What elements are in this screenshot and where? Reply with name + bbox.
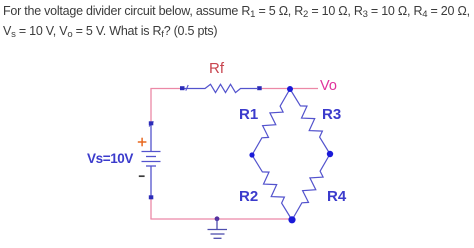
wire: left vertical (top section, Vs top pin to top-left corner) xyxy=(150,89,152,123)
ground junction dot xyxy=(215,216,220,221)
svg-text:Vs=10V: Vs=10V xyxy=(87,151,133,166)
node: top bridge node (Vo node) xyxy=(287,86,293,92)
junction square (battery bottom pin) xyxy=(149,195,154,199)
resistor Rf xyxy=(184,84,257,92)
resistor R4 xyxy=(292,154,330,220)
svg-text:R4: R4 xyxy=(327,188,347,205)
svg-text:R3: R3 xyxy=(322,106,341,123)
resistor R3 xyxy=(290,89,330,154)
node: left bridge node xyxy=(249,152,254,157)
battery plus sign xyxy=(138,138,147,147)
resistor R1 xyxy=(252,89,290,155)
pin tick at Rf pin1 xyxy=(186,85,188,91)
ground symbol xyxy=(208,219,228,238)
resistor R2 xyxy=(252,155,292,220)
junction square (Rf pin1) xyxy=(180,86,185,90)
junction square (Rf pin2) xyxy=(257,86,262,90)
svg-text:R2: R2 xyxy=(239,188,258,205)
battery minus sign xyxy=(139,175,145,177)
svg-text:Rf: Rf xyxy=(209,60,225,77)
wire: top horizontal from Rf pin2 to node Vo stub end xyxy=(261,88,318,90)
svg-text:Vo: Vo xyxy=(320,78,337,94)
wire: top horizontal from corner to Rf pin1 xyxy=(150,88,181,90)
node: right bridge node xyxy=(327,151,333,157)
node: bottom bridge node xyxy=(288,216,295,223)
junction square (battery top pin) xyxy=(149,121,154,125)
pin tick at battery top xyxy=(149,122,154,127)
wire: bottom horizontal xyxy=(150,218,292,220)
wire: left vertical bottom section xyxy=(150,198,152,219)
svg-text:R1: R1 xyxy=(239,106,258,123)
battery Vs (voltage source) xyxy=(142,122,161,197)
